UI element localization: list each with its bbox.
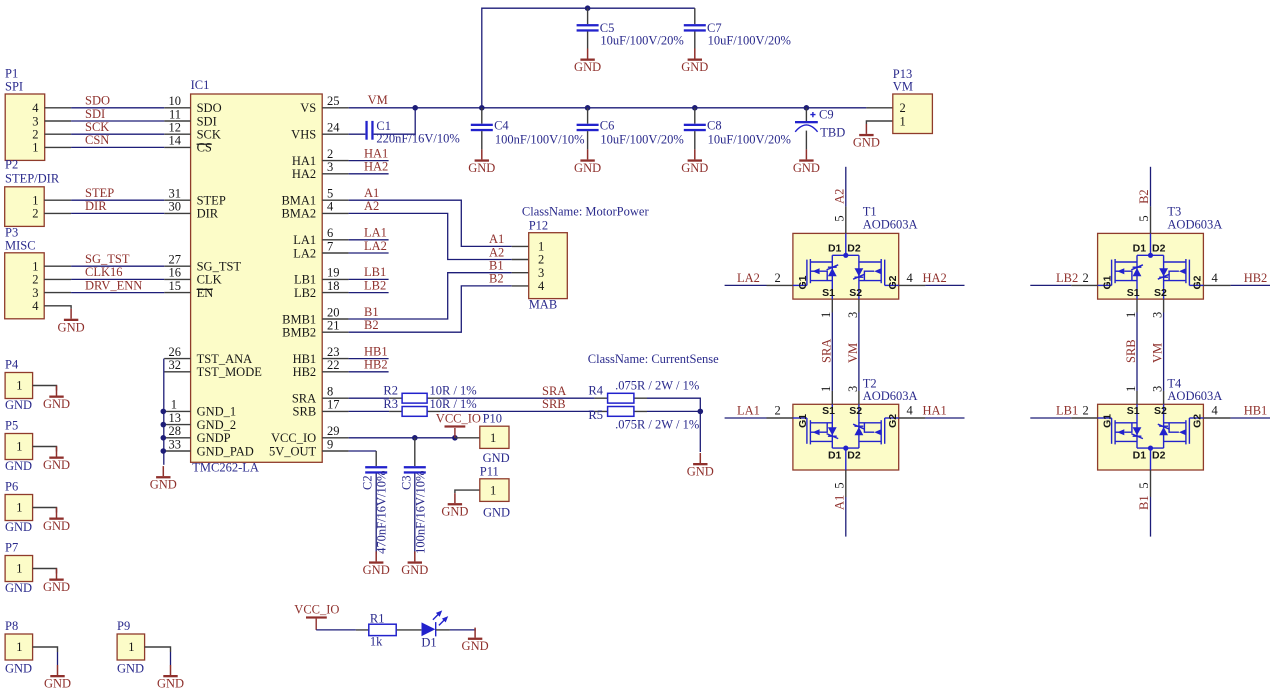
svg-text:3: 3 bbox=[846, 312, 860, 318]
transistor T4 AOD603A body bbox=[1098, 404, 1204, 470]
connector P6 bbox=[5, 480, 57, 535]
svg-text:20: 20 bbox=[327, 305, 340, 319]
svg-text:12: 12 bbox=[169, 121, 182, 135]
wire VM rail from IC1 VS to P13 bbox=[349, 107, 867, 109]
svg-text:8: 8 bbox=[327, 385, 333, 399]
svg-text:4: 4 bbox=[327, 200, 334, 214]
svg-text:SRA: SRA bbox=[292, 392, 316, 406]
svg-text:2: 2 bbox=[32, 128, 38, 142]
svg-text:29: 29 bbox=[327, 424, 340, 438]
svg-text:10uF/100V/20%: 10uF/100V/20% bbox=[600, 132, 683, 146]
svg-text:DIR: DIR bbox=[85, 199, 107, 213]
svg-text:GND: GND bbox=[5, 662, 32, 676]
net SRB vertical T3 S1 to T4 S1 bbox=[1136, 299, 1138, 404]
svg-text:2: 2 bbox=[1083, 404, 1089, 418]
svg-text:1k: 1k bbox=[370, 634, 383, 648]
svg-text:D1: D1 bbox=[421, 635, 436, 649]
ground below C6 bbox=[574, 149, 601, 175]
net HB1 wire from T4 G2 bbox=[1203, 417, 1230, 419]
ground at P5 bbox=[43, 447, 70, 473]
svg-text:LA1: LA1 bbox=[293, 233, 316, 247]
svg-text:LB2: LB2 bbox=[364, 278, 386, 292]
net HB1 stub bbox=[349, 358, 389, 360]
svg-text:2: 2 bbox=[775, 271, 781, 285]
junction VM/C1 bbox=[412, 105, 418, 111]
svg-text:VCC_IO: VCC_IO bbox=[294, 603, 339, 617]
svg-text:1: 1 bbox=[490, 431, 496, 445]
svg-text:A1: A1 bbox=[364, 186, 379, 200]
svg-text:P12: P12 bbox=[529, 219, 548, 233]
net VM vertical T3 S2 to T4 S2 bbox=[1163, 299, 1165, 404]
svg-text:HA1: HA1 bbox=[923, 404, 947, 418]
svg-text:S1: S1 bbox=[822, 405, 835, 417]
svg-text:G2: G2 bbox=[887, 275, 899, 289]
T4 labels bbox=[1102, 376, 1223, 461]
ground at P8 bbox=[44, 665, 71, 691]
T3 labels bbox=[1102, 204, 1223, 299]
svg-text:CLK16: CLK16 bbox=[85, 265, 123, 279]
svg-text:17: 17 bbox=[327, 398, 340, 412]
net HB2 wire from T3 G2 bbox=[1203, 284, 1230, 286]
svg-text:LB1: LB1 bbox=[364, 265, 386, 279]
svg-text:GND: GND bbox=[5, 459, 32, 473]
net LB2 wire to T3 G1 bbox=[1030, 284, 1071, 286]
svg-text:A2: A2 bbox=[364, 199, 379, 213]
svg-text:SDI: SDI bbox=[85, 107, 105, 121]
net A1 stub below T2 bbox=[845, 470, 847, 497]
svg-text:CSN: CSN bbox=[85, 133, 109, 147]
resistor R5 bbox=[588, 407, 699, 432]
svg-text:AOD603A: AOD603A bbox=[1167, 218, 1222, 232]
net B2 stub above T3 bbox=[1150, 206, 1152, 233]
wire IC GND bus bbox=[163, 359, 165, 465]
ground at sense resistors bbox=[687, 453, 714, 479]
svg-text:R2: R2 bbox=[383, 384, 398, 398]
IC1 left pin stubs bbox=[164, 108, 190, 451]
svg-text:3: 3 bbox=[32, 114, 38, 128]
svg-text:BMB2: BMB2 bbox=[282, 326, 316, 340]
svg-text:P6: P6 bbox=[5, 480, 18, 494]
svg-text:2: 2 bbox=[775, 404, 781, 418]
svg-text:31: 31 bbox=[169, 187, 182, 201]
svg-text:BMA2: BMA2 bbox=[281, 207, 316, 221]
net SRB wire IC to R3 bbox=[349, 410, 390, 412]
svg-text:P1: P1 bbox=[5, 67, 18, 81]
svg-text:SRA: SRA bbox=[819, 339, 833, 363]
junction VCC_IO supply bbox=[452, 435, 458, 441]
svg-text:G1: G1 bbox=[1102, 414, 1114, 428]
svg-text:10uF/100V/20%: 10uF/100V/20% bbox=[708, 132, 791, 146]
svg-text:11: 11 bbox=[169, 107, 181, 121]
ground at D1 bbox=[462, 628, 489, 654]
svg-text:4: 4 bbox=[907, 404, 914, 418]
svg-text:S2: S2 bbox=[849, 287, 862, 299]
svg-text:32: 32 bbox=[169, 358, 182, 372]
svg-text:GND: GND bbox=[483, 451, 510, 465]
connector P4 bbox=[5, 358, 57, 413]
svg-text:2: 2 bbox=[538, 253, 544, 267]
IC U1 TMC262-LA body bbox=[191, 94, 323, 462]
svg-text:TST_MODE: TST_MODE bbox=[197, 365, 263, 379]
svg-text:22: 22 bbox=[327, 358, 340, 372]
net LB2 stub bbox=[349, 292, 389, 294]
svg-text:T3: T3 bbox=[1167, 204, 1181, 218]
svg-text:1: 1 bbox=[16, 379, 22, 393]
svg-text:MAB: MAB bbox=[529, 298, 557, 312]
ground at P3 pin4 bbox=[58, 309, 85, 335]
svg-text:26: 26 bbox=[169, 345, 182, 359]
svg-text:SDO: SDO bbox=[197, 101, 222, 115]
svg-text:33: 33 bbox=[169, 437, 182, 451]
net SRA wire R2 to R4 bbox=[440, 397, 594, 399]
svg-text:SDO: SDO bbox=[85, 94, 110, 108]
svg-text:2: 2 bbox=[32, 273, 38, 287]
capacitor C7 bbox=[684, 8, 791, 48]
svg-text:1: 1 bbox=[16, 562, 22, 576]
svg-text:1: 1 bbox=[490, 483, 496, 497]
net A2 stub above T1 bbox=[845, 206, 847, 233]
net A1 wire to P12 bbox=[349, 200, 512, 246]
svg-text:ClassName: CurrentSense: ClassName: CurrentSense bbox=[588, 352, 719, 366]
svg-text:AOD603A: AOD603A bbox=[863, 218, 918, 232]
capacitor C9 polarized bbox=[795, 107, 845, 149]
svg-text:G1: G1 bbox=[797, 414, 809, 428]
svg-text:CS: CS bbox=[197, 141, 212, 155]
svg-text:5: 5 bbox=[327, 187, 333, 201]
svg-text:D2: D2 bbox=[847, 450, 861, 462]
svg-text:24: 24 bbox=[327, 121, 340, 135]
capacitor C4 bbox=[471, 108, 585, 150]
svg-text:1: 1 bbox=[1124, 386, 1138, 392]
net LB1 wire to T4 G1 bbox=[1030, 417, 1071, 419]
svg-text:470nF/16V/10%: 470nF/16V/10% bbox=[375, 471, 389, 554]
supply symbol VCC_IO at LED bbox=[294, 603, 339, 630]
capacitor C1 bbox=[349, 108, 460, 146]
IC1 left pin names bbox=[197, 101, 263, 458]
svg-text:.075R / 2W / 1%: .075R / 2W / 1% bbox=[615, 379, 699, 393]
svg-text:C2: C2 bbox=[361, 475, 375, 490]
net LA2 stub bbox=[349, 252, 389, 254]
svg-text:3: 3 bbox=[538, 266, 544, 280]
connector P10 bbox=[455, 411, 510, 465]
supply symbol VCC_IO bbox=[436, 411, 481, 438]
junction GND bus pin13 bbox=[161, 422, 167, 428]
transistor T3 internals bbox=[1098, 233, 1204, 299]
svg-text:SRA: SRA bbox=[542, 384, 566, 398]
svg-text:B1: B1 bbox=[1137, 495, 1151, 510]
ground below C8 bbox=[681, 149, 708, 175]
net VM vertical T1 S2 to T2 S2 bbox=[858, 299, 860, 404]
svg-text:DRV_ENN: DRV_ENN bbox=[85, 278, 142, 292]
svg-text:LA1: LA1 bbox=[737, 404, 760, 418]
net B2 wire to P12 bbox=[349, 286, 512, 332]
svg-text:19: 19 bbox=[327, 266, 340, 280]
svg-text:1: 1 bbox=[900, 114, 906, 128]
svg-text:A1: A1 bbox=[832, 495, 846, 510]
svg-text:HA2: HA2 bbox=[292, 167, 316, 181]
transistor T2 internals bbox=[793, 404, 899, 470]
svg-text:C3: C3 bbox=[400, 475, 414, 490]
ground below C7 bbox=[681, 49, 708, 75]
svg-text:SRB: SRB bbox=[293, 405, 317, 419]
junction VM/C6 bbox=[585, 105, 591, 111]
svg-text:SCK: SCK bbox=[197, 128, 221, 142]
svg-text:S1: S1 bbox=[822, 287, 835, 299]
net LA1 stub bbox=[349, 239, 389, 241]
svg-text:HB2: HB2 bbox=[364, 358, 388, 372]
svg-text:IC1: IC1 bbox=[191, 78, 210, 92]
svg-text:25: 25 bbox=[327, 94, 340, 108]
connector P11 bbox=[455, 464, 510, 519]
ground at P11 bbox=[441, 493, 468, 519]
svg-text:1: 1 bbox=[16, 440, 22, 454]
svg-text:SG_TST: SG_TST bbox=[85, 252, 130, 266]
svg-text:STEP: STEP bbox=[197, 194, 226, 208]
svg-text:D2: D2 bbox=[1152, 450, 1166, 462]
svg-text:P8: P8 bbox=[5, 619, 18, 633]
svg-text:C4: C4 bbox=[494, 119, 509, 133]
svg-text:10uF/100V/20%: 10uF/100V/20% bbox=[708, 33, 791, 47]
svg-text:HA2: HA2 bbox=[923, 271, 947, 285]
svg-text:A2: A2 bbox=[832, 189, 846, 204]
net CSN wire bbox=[71, 146, 164, 148]
svg-text:SDI: SDI bbox=[197, 114, 217, 128]
svg-text:G2: G2 bbox=[887, 414, 899, 428]
svg-text:VM: VM bbox=[368, 93, 388, 107]
svg-text:SPI: SPI bbox=[5, 80, 23, 94]
svg-text:10uF/100V/20%: 10uF/100V/20% bbox=[600, 33, 683, 47]
connector P9 bbox=[117, 619, 171, 676]
ground at P4 bbox=[43, 386, 70, 412]
svg-text:30: 30 bbox=[169, 200, 182, 214]
svg-text:SRB: SRB bbox=[1124, 339, 1138, 363]
net CLK16 wire bbox=[71, 278, 164, 280]
svg-text:B2: B2 bbox=[489, 272, 504, 286]
svg-text:D1: D1 bbox=[1133, 243, 1147, 255]
junction GND bus pin1 bbox=[161, 409, 167, 415]
net LA1 wire to T2 G1 bbox=[725, 417, 767, 419]
svg-text:R4: R4 bbox=[588, 384, 603, 398]
svg-text:5: 5 bbox=[1137, 482, 1151, 488]
svg-text:9: 9 bbox=[327, 437, 333, 451]
svg-text:STEP/DIR: STEP/DIR bbox=[5, 171, 60, 185]
svg-text:3: 3 bbox=[846, 386, 860, 392]
junction VM/C8 bbox=[692, 105, 698, 111]
svg-text:GND: GND bbox=[5, 398, 32, 412]
svg-text:BMB1: BMB1 bbox=[282, 312, 316, 326]
svg-text:1: 1 bbox=[538, 240, 544, 254]
net SRB wire R3 to R5 bbox=[440, 410, 594, 412]
svg-text:GND: GND bbox=[5, 581, 32, 595]
svg-text:220nF/16V/10%: 220nF/16V/10% bbox=[376, 132, 459, 146]
connector P7 bbox=[5, 541, 57, 596]
connector P5 bbox=[5, 419, 57, 474]
transistor T4 internals bbox=[1098, 404, 1204, 470]
net SDI wire bbox=[71, 120, 164, 122]
svg-text:5: 5 bbox=[832, 215, 846, 221]
net SG_TST wire bbox=[71, 265, 164, 267]
svg-text:T1: T1 bbox=[863, 204, 877, 218]
svg-text:BMA1: BMA1 bbox=[281, 194, 316, 208]
wire R4/R5 outputs to ground bbox=[647, 398, 700, 452]
resistor R1 bbox=[356, 611, 422, 648]
IC1 left pin numbers bbox=[169, 94, 182, 451]
svg-text:A1: A1 bbox=[489, 232, 504, 246]
svg-text:4: 4 bbox=[538, 279, 545, 293]
svg-text:B1: B1 bbox=[489, 259, 504, 273]
IC1 right pin numbers bbox=[327, 94, 340, 451]
svg-text:SRB: SRB bbox=[542, 397, 566, 411]
svg-text:21: 21 bbox=[327, 319, 340, 333]
net STEP wire bbox=[71, 199, 164, 201]
IC1 pin CS overbar bbox=[197, 143, 212, 145]
svg-text:1: 1 bbox=[32, 194, 38, 208]
svg-text:2: 2 bbox=[32, 207, 38, 221]
svg-text:LB2: LB2 bbox=[294, 286, 316, 300]
svg-text:MISC: MISC bbox=[5, 239, 36, 253]
svg-text:LB1: LB1 bbox=[294, 273, 316, 287]
svg-text:SCK: SCK bbox=[85, 120, 109, 134]
svg-text:5V_OUT: 5V_OUT bbox=[269, 444, 317, 458]
svg-text:18: 18 bbox=[327, 279, 340, 293]
svg-text:HA1: HA1 bbox=[292, 154, 316, 168]
net B1 stub below T4 bbox=[1150, 470, 1152, 497]
svg-text:1: 1 bbox=[32, 260, 38, 274]
T1 labels bbox=[797, 204, 918, 299]
svg-text:LA1: LA1 bbox=[364, 226, 387, 240]
svg-text:B1: B1 bbox=[364, 305, 379, 319]
capacitor C5 bbox=[577, 8, 684, 48]
svg-text:TMC262-LA: TMC262-LA bbox=[192, 461, 259, 475]
net HA1 wire from T2 G2 bbox=[899, 417, 926, 419]
net B1 wire to P12 bbox=[349, 273, 512, 319]
svg-text:A2: A2 bbox=[489, 245, 504, 259]
connector P3 MISC bbox=[5, 226, 71, 319]
svg-text:P2: P2 bbox=[5, 157, 18, 171]
svg-text:GNDP: GNDP bbox=[197, 431, 231, 445]
svg-text:.075R / 2W / 1%: .075R / 2W / 1% bbox=[615, 417, 699, 431]
svg-text:ClassName: MotorPower: ClassName: MotorPower bbox=[522, 205, 650, 219]
svg-text:S2: S2 bbox=[1154, 405, 1167, 417]
svg-text:100nF/100V/10%: 100nF/100V/10% bbox=[495, 132, 585, 146]
net SCK wire bbox=[71, 133, 164, 135]
junction VM/C4 bbox=[479, 105, 485, 111]
svg-text:2: 2 bbox=[327, 147, 333, 161]
svg-text:G1: G1 bbox=[797, 275, 809, 289]
net SRA vertical T1 S1 to T2 S1 bbox=[831, 299, 833, 404]
junction VCC_IO / C3 bbox=[412, 435, 418, 441]
transistor T1 internals bbox=[793, 233, 899, 299]
svg-text:2: 2 bbox=[900, 101, 906, 115]
svg-text:HA2: HA2 bbox=[364, 160, 388, 174]
svg-text:G1: G1 bbox=[1102, 275, 1114, 289]
svg-text:TST_ANA: TST_ANA bbox=[197, 352, 253, 366]
svg-text:VM: VM bbox=[893, 79, 913, 93]
svg-text:P3: P3 bbox=[5, 226, 18, 240]
svg-text:D1: D1 bbox=[1133, 450, 1147, 462]
capacitor C2 bbox=[361, 451, 389, 554]
resistor R2 bbox=[383, 384, 476, 403]
svg-text:P5: P5 bbox=[5, 419, 18, 433]
svg-text:GND_2: GND_2 bbox=[197, 418, 237, 432]
svg-text:C8: C8 bbox=[707, 119, 722, 133]
svg-text:3: 3 bbox=[1151, 386, 1165, 392]
junction top loop C5 bbox=[585, 5, 591, 11]
ground below C4 bbox=[468, 149, 495, 175]
svg-text:1: 1 bbox=[819, 386, 833, 392]
svg-text:LB2: LB2 bbox=[1056, 271, 1078, 285]
svg-text:100nF/16V/10%: 100nF/16V/10% bbox=[413, 471, 427, 554]
svg-text:10R / 1%: 10R / 1% bbox=[430, 397, 477, 411]
svg-text:P7: P7 bbox=[5, 541, 18, 555]
svg-text:LA2: LA2 bbox=[293, 246, 316, 260]
net LA2 wire to T1 G1 bbox=[725, 284, 767, 286]
svg-text:23: 23 bbox=[327, 345, 340, 359]
svg-text:HB1: HB1 bbox=[293, 352, 317, 366]
svg-text:GND: GND bbox=[5, 520, 32, 534]
svg-text:10R / 1%: 10R / 1% bbox=[430, 384, 477, 398]
connector P1 SPI bbox=[5, 67, 71, 161]
svg-text:D1: D1 bbox=[828, 450, 842, 462]
svg-text:VHS: VHS bbox=[291, 128, 316, 142]
svg-text:S2: S2 bbox=[1154, 287, 1167, 299]
svg-text:2: 2 bbox=[1083, 271, 1089, 285]
junction GND bus pin28 bbox=[161, 435, 167, 441]
svg-text:GND: GND bbox=[483, 506, 510, 520]
svg-text:B2: B2 bbox=[364, 318, 379, 332]
svg-text:C6: C6 bbox=[600, 119, 615, 133]
svg-text:P4: P4 bbox=[5, 358, 19, 372]
svg-text:P11: P11 bbox=[480, 464, 499, 478]
svg-text:LA2: LA2 bbox=[364, 239, 387, 253]
svg-text:HB2: HB2 bbox=[293, 365, 317, 379]
svg-text:SG_TST: SG_TST bbox=[197, 260, 242, 274]
svg-text:GND_1: GND_1 bbox=[197, 405, 237, 419]
svg-text:1: 1 bbox=[819, 312, 833, 318]
svg-text:TBD: TBD bbox=[820, 126, 845, 140]
junction VM/C9 bbox=[804, 105, 810, 111]
svg-text:13: 13 bbox=[169, 411, 182, 425]
svg-text:VCC_IO: VCC_IO bbox=[271, 431, 316, 445]
svg-text:B2: B2 bbox=[1137, 189, 1151, 204]
transistor T3 AOD603A body bbox=[1098, 233, 1204, 299]
connector P8 bbox=[5, 619, 58, 676]
svg-text:GND: GND bbox=[117, 662, 144, 676]
svg-text:VM: VM bbox=[1151, 343, 1165, 363]
svg-text:4: 4 bbox=[1212, 404, 1219, 418]
junction GND bus pin33 bbox=[161, 448, 167, 454]
svg-text:27: 27 bbox=[169, 253, 182, 267]
ground at P6 bbox=[43, 508, 70, 534]
LED D1 bbox=[421, 610, 448, 649]
net SRA wire IC to R2 bbox=[349, 397, 390, 399]
svg-text:14: 14 bbox=[169, 134, 182, 148]
wire D1 to ground bbox=[436, 629, 450, 631]
svg-text:AOD603A: AOD603A bbox=[863, 389, 918, 403]
connector P13 bbox=[866, 67, 932, 133]
svg-text:HB2: HB2 bbox=[1244, 271, 1268, 285]
svg-text:4: 4 bbox=[32, 101, 39, 115]
svg-text:HA1: HA1 bbox=[364, 146, 388, 160]
svg-text:4: 4 bbox=[32, 299, 39, 313]
svg-text:7: 7 bbox=[327, 239, 333, 253]
T2 labels bbox=[797, 376, 918, 461]
svg-text:LA2: LA2 bbox=[737, 271, 760, 285]
capacitor C3 bbox=[400, 438, 428, 554]
junction sense ground bbox=[698, 409, 704, 415]
svg-text:STEP: STEP bbox=[85, 186, 114, 200]
svg-text:S2: S2 bbox=[849, 405, 862, 417]
